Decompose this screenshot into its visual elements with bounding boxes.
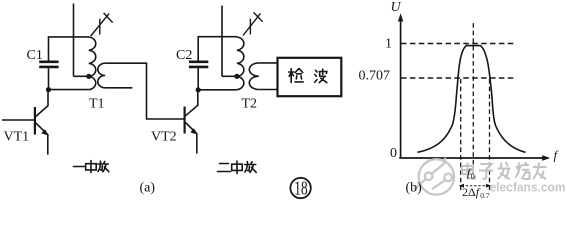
svg-text:18: 18 xyxy=(294,178,307,200)
svg-text:elecfans.com: elecfans.com xyxy=(490,181,566,195)
svg-text:0: 0 xyxy=(471,172,475,181)
svg-text:T1: T1 xyxy=(89,97,105,112)
svg-text:VT1: VT1 xyxy=(4,130,30,145)
svg-text:0.7: 0.7 xyxy=(480,191,490,200)
svg-text:0: 0 xyxy=(390,146,397,161)
svg-text:0.707: 0.707 xyxy=(359,69,391,84)
svg-text:C1: C1 xyxy=(27,48,43,63)
svg-text:(b): (b) xyxy=(406,181,423,196)
svg-text:1: 1 xyxy=(385,36,392,51)
svg-text:f: f xyxy=(554,148,560,163)
svg-text:Δ: Δ xyxy=(468,185,476,199)
svg-text:(a): (a) xyxy=(140,181,156,196)
svg-text:C2: C2 xyxy=(176,48,192,63)
svg-text:VT2: VT2 xyxy=(151,130,177,145)
svg-text:U: U xyxy=(391,0,402,15)
svg-text:T2: T2 xyxy=(242,97,258,112)
